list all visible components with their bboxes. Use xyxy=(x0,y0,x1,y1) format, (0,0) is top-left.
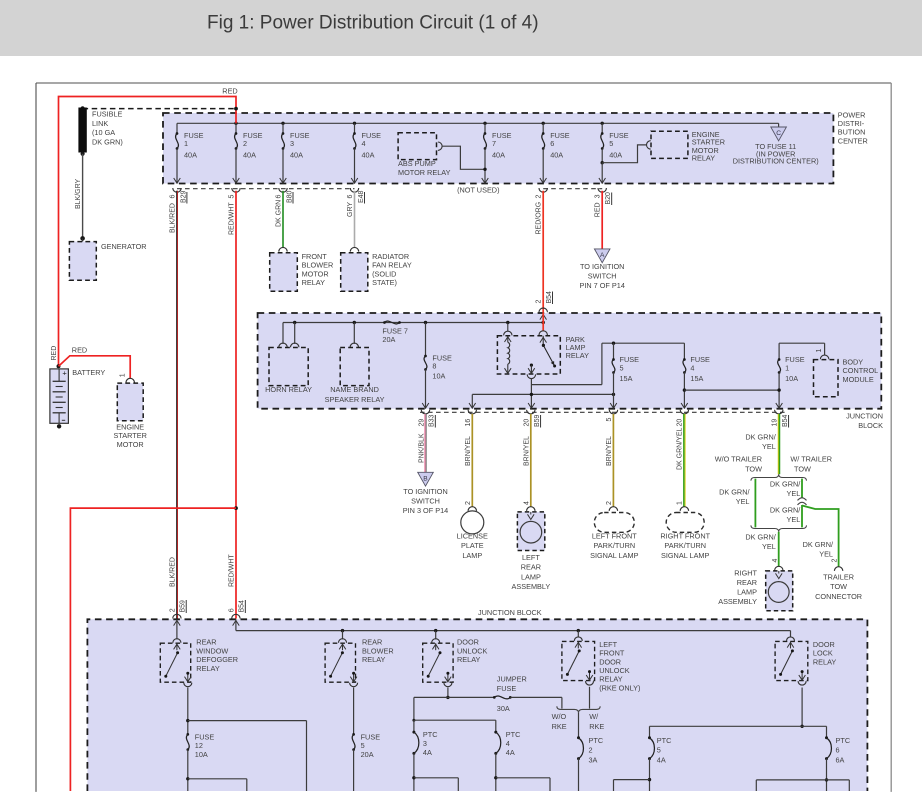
labels RED 3 B20 xyxy=(595,192,612,217)
middle JB exit connector arcs xyxy=(421,410,783,414)
svg-text:B: B xyxy=(423,475,428,482)
svg-text:GENERATOR: GENERATOR xyxy=(101,242,147,251)
labels RED/WHT 6 B54 (lower) xyxy=(229,554,246,613)
label DK GRN/YEL (right branch lower) xyxy=(770,506,801,525)
svg-text:REAR: REAR xyxy=(362,638,382,647)
svg-text:20A: 20A xyxy=(361,750,374,759)
svg-text:STARTER: STARTER xyxy=(114,431,147,440)
svg-text:CONTROL: CONTROL xyxy=(843,366,879,375)
wire W/ trailer branch lower xyxy=(801,505,803,527)
svg-text:PNK/BLK: PNK/BLK xyxy=(418,433,425,463)
svg-text:C: C xyxy=(776,130,781,137)
svg-text:1: 1 xyxy=(677,501,684,505)
brace trailer split top xyxy=(751,474,807,480)
svg-text:FUSE: FUSE xyxy=(195,732,215,741)
svg-text:ASSEMBLY: ASSEMBLY xyxy=(512,582,551,591)
svg-text:8: 8 xyxy=(432,362,436,371)
svg-text:10A: 10A xyxy=(785,374,798,383)
svg-text:30A: 30A xyxy=(497,704,510,713)
svg-text:LEFT: LEFT xyxy=(599,640,617,649)
svg-text:LEFT FRONT: LEFT FRONT xyxy=(592,532,637,541)
svg-text:STATE): STATE) xyxy=(372,278,397,287)
svg-text:B20: B20 xyxy=(605,192,612,205)
wire door lock relay output xyxy=(650,688,827,738)
svg-text:10A: 10A xyxy=(432,372,445,381)
svg-text:SWITCH: SWITCH xyxy=(411,496,440,505)
fuse FUSE 5 15A xyxy=(610,343,639,408)
fuse FUSE 2 40A xyxy=(233,123,263,183)
svg-text:DK GRN/: DK GRN/ xyxy=(745,533,776,542)
fuse FUSE 1 40A xyxy=(174,123,204,183)
wire RED fuse5 to ignition switch triangle xyxy=(601,191,603,249)
svg-text:POWER: POWER xyxy=(838,110,866,119)
svg-text:15A: 15A xyxy=(620,374,633,383)
svg-text:20: 20 xyxy=(524,419,531,427)
fuse FUSE 8 10A xyxy=(422,323,452,409)
svg-text:PARK/TURN: PARK/TURN xyxy=(593,541,635,550)
wire to trailer tow connector xyxy=(802,506,839,567)
off-page triangle B to ignition switch xyxy=(403,472,448,515)
wire defogger output / fuse 12 column xyxy=(186,688,306,792)
svg-text:2: 2 xyxy=(243,139,247,148)
svg-text:4: 4 xyxy=(772,559,779,563)
wire BLK/GRY fusible link to generator xyxy=(82,154,84,239)
svg-text:TRAILER: TRAILER xyxy=(823,573,854,582)
svg-text:FRONT: FRONT xyxy=(599,649,625,658)
wire W/O trailer branch xyxy=(754,479,756,528)
svg-text:BODY: BODY xyxy=(843,358,864,367)
svg-text:TO IGNITION: TO IGNITION xyxy=(403,487,447,496)
svg-text:2: 2 xyxy=(589,746,593,755)
svg-text:MOTOR RELAY: MOTOR RELAY xyxy=(398,168,451,177)
svg-text:6: 6 xyxy=(276,195,283,199)
svg-text:BLK/GRY: BLK/GRY xyxy=(75,178,82,209)
brace W/O RKE / W RKE merge xyxy=(557,706,600,712)
label JUNCTION BLOCK (middle) xyxy=(846,412,883,431)
horn relay xyxy=(265,323,312,395)
label DK GRN/YEL (to trailer connector) xyxy=(803,540,834,559)
svg-text:PTC: PTC xyxy=(836,736,851,745)
svg-text:RKE: RKE xyxy=(552,722,567,731)
svg-text:DK GRN/: DK GRN/ xyxy=(719,488,750,497)
svg-text:40A: 40A xyxy=(492,150,505,159)
svg-text:BATTERY: BATTERY xyxy=(72,368,105,377)
wire GRY fuse4 to radiator fan relay xyxy=(354,191,356,248)
wire door unlock output branch xyxy=(412,688,495,733)
PTC 3 4A xyxy=(412,720,458,791)
svg-text:UNLOCK: UNLOCK xyxy=(457,646,488,655)
trailer tow connector xyxy=(815,567,862,601)
svg-text:BRN/YEL: BRN/YEL xyxy=(606,436,613,466)
svg-text:FUSE: FUSE xyxy=(497,684,517,693)
svg-text:16: 16 xyxy=(465,419,472,427)
wire PNK/BLK fuse8 to ignition switch triangle xyxy=(425,414,426,472)
svg-text:LOCK: LOCK xyxy=(813,649,833,658)
junction dot RED/WHT branch xyxy=(234,506,238,510)
svg-text:LICENSE: LICENSE xyxy=(457,532,488,541)
svg-text:(RKE ONLY): (RKE ONLY) xyxy=(599,683,640,692)
svg-text:W/O: W/O xyxy=(552,712,567,721)
svg-text:2: 2 xyxy=(169,608,176,612)
middle JB bottom connector dashes xyxy=(420,411,787,413)
svg-text:B29: B29 xyxy=(180,190,187,203)
svg-text:RED/WHT: RED/WHT xyxy=(229,202,236,235)
fuse FUSE 3 40A xyxy=(280,123,310,183)
svg-text:RELAY: RELAY xyxy=(566,351,590,360)
svg-text:40A: 40A xyxy=(550,150,563,159)
wire rear blower output / fuse 5 column xyxy=(353,688,355,735)
wire fuse4-fuse1 tie xyxy=(684,389,779,391)
svg-text:3: 3 xyxy=(595,194,602,198)
wire park lamp relay output to exits xyxy=(469,343,615,408)
svg-text:RELAY: RELAY xyxy=(196,664,220,673)
fuse FUSE 1 10A xyxy=(776,343,805,408)
rear blower relay xyxy=(325,639,358,687)
svg-text:2: 2 xyxy=(831,559,838,563)
svg-text:RELAY: RELAY xyxy=(813,657,837,666)
PTC 2 3A xyxy=(577,713,603,791)
PTC 6 6A xyxy=(756,736,850,791)
svg-text:DK GRN/: DK GRN/ xyxy=(803,540,834,549)
engine starter motor relay (PDC) xyxy=(647,130,726,162)
labels DK GRN/YEL 19 B54 xyxy=(772,414,789,427)
PTC 4 4A xyxy=(494,730,550,791)
svg-text:MODULE: MODULE xyxy=(843,375,874,384)
wire DK GRN/YEL 19 main to trailer split xyxy=(778,414,779,474)
svg-text:1: 1 xyxy=(184,139,188,148)
PDC exit connector arcs xyxy=(173,188,607,192)
svg-text:DISTRIBUTION CENTER): DISTRIBUTION CENTER) xyxy=(733,157,819,166)
svg-text:40A: 40A xyxy=(243,150,256,159)
fuse FUSE 12 10A xyxy=(186,732,247,791)
svg-text:RELAY: RELAY xyxy=(692,153,716,162)
wire to right rear lamp assembly xyxy=(778,532,780,567)
svg-text:1: 1 xyxy=(785,363,789,372)
diagram outer frame (clipped at bottom) xyxy=(36,82,891,84)
svg-text:RED: RED xyxy=(51,346,58,361)
rear window defogger relay xyxy=(160,639,192,687)
wire: ABS relay output to fuse 7 column (not used) xyxy=(442,146,487,171)
svg-text:4A: 4A xyxy=(506,748,515,757)
svg-text:6: 6 xyxy=(347,195,354,199)
junction block top entry arrow / connector (RED/ORG) xyxy=(539,308,547,320)
svg-text:40A: 40A xyxy=(290,150,303,159)
junction block (middle) box xyxy=(258,313,882,409)
right front park/turn signal lamp xyxy=(660,507,710,560)
svg-text:MOTOR: MOTOR xyxy=(117,440,144,449)
svg-text:DK GRN/: DK GRN/ xyxy=(745,433,776,442)
labels GRY 6 E48 xyxy=(347,190,365,217)
right rear lamp assembly xyxy=(718,566,792,611)
svg-text:DK GRN/: DK GRN/ xyxy=(770,506,801,515)
label DK GRN/YEL (left branch) xyxy=(719,488,750,507)
svg-text:RIGHT: RIGHT xyxy=(734,569,757,578)
svg-text:YEL: YEL xyxy=(762,542,776,551)
relay terminal drops from bus xyxy=(343,631,791,640)
svg-text:20: 20 xyxy=(677,419,684,427)
svg-text:NAME BRAND: NAME BRAND xyxy=(330,385,379,394)
junction block (bottom) box, clipped at image bottom xyxy=(87,619,867,791)
svg-text:BRN/YEL: BRN/YEL xyxy=(465,436,472,466)
svg-text:LAMP: LAMP xyxy=(521,572,541,581)
svg-text:SIGNAL LAMP: SIGNAL LAMP xyxy=(661,551,710,560)
svg-text:YEL: YEL xyxy=(787,489,801,498)
door unlock relay xyxy=(423,639,453,687)
label DK GRN/YEL (above split) xyxy=(745,433,776,452)
svg-text:SWITCH: SWITCH xyxy=(588,272,617,281)
svg-text:LEFT: LEFT xyxy=(522,553,540,562)
fuse FUSE 7 20A (junction block) xyxy=(382,321,408,344)
svg-text:Fig 1: Power Distribution Circ: Fig 1: Power Distribution Circuit (1 of … xyxy=(207,13,539,34)
labels DK GRN/YEL 20 / 1 xyxy=(677,419,684,505)
svg-text:DISTRI-: DISTRI- xyxy=(838,119,865,128)
bottom JB entry arrows/connectors xyxy=(173,614,240,625)
svg-text:PLATE: PLATE xyxy=(461,541,484,550)
off-page triangle A to ignition switch xyxy=(579,249,624,290)
svg-text:5: 5 xyxy=(606,418,613,422)
svg-text:DK GRN): DK GRN) xyxy=(92,138,123,147)
svg-text:5: 5 xyxy=(620,363,624,372)
junction dot battery positive xyxy=(57,364,61,368)
svg-text:5: 5 xyxy=(609,139,613,148)
svg-text:DOOR: DOOR xyxy=(599,657,621,666)
svg-text:W/O TRAILER: W/O TRAILER xyxy=(715,455,762,464)
svg-text:20A: 20A xyxy=(382,335,395,344)
svg-text:12: 12 xyxy=(195,741,203,750)
wire DK GRN fuse3 to front blower motor relay xyxy=(282,191,284,248)
labels PNK/BLK 29 B33 xyxy=(418,414,435,463)
svg-text:2: 2 xyxy=(465,501,472,505)
svg-text:RED: RED xyxy=(595,202,602,217)
svg-text:LINK: LINK xyxy=(92,119,108,128)
fuse FUSE 5 40A (PDC) xyxy=(599,123,629,183)
svg-text:40A: 40A xyxy=(609,150,622,159)
wire: fuse 5 output to engine starter motor relay xyxy=(602,145,646,163)
wire: main RED feed from battery to PDC xyxy=(59,97,237,367)
svg-text:TOW: TOW xyxy=(830,582,847,591)
svg-text:WINDOW: WINDOW xyxy=(196,646,228,655)
svg-text:B80: B80 xyxy=(286,190,293,203)
label DK GRN/YEL (to right rear lamp) xyxy=(745,533,776,552)
svg-text:RED: RED xyxy=(222,86,237,95)
left front park/turn signal lamp xyxy=(590,507,639,560)
svg-text:YEL: YEL xyxy=(787,515,801,524)
svg-text:PTC: PTC xyxy=(657,736,672,745)
svg-text:19: 19 xyxy=(772,419,779,427)
svg-text:(NOT USED): (NOT USED) xyxy=(457,186,499,195)
svg-text:DOOR: DOOR xyxy=(457,638,479,647)
svg-text:RED/ORG: RED/ORG xyxy=(536,202,543,235)
left rear lamp assembly xyxy=(512,507,551,591)
wire BLK/RED entry to defogger relay xyxy=(176,619,178,639)
svg-text:BLOWER: BLOWER xyxy=(302,261,334,270)
svg-text:PIN 7 OF P14: PIN 7 OF P14 xyxy=(579,281,624,290)
svg-text:RED: RED xyxy=(72,345,87,354)
labels RED/WHT 5 xyxy=(229,195,236,236)
svg-text:YEL: YEL xyxy=(819,550,833,559)
fusible link (10 GA DK GRN) xyxy=(78,106,236,156)
svg-text:+: + xyxy=(62,368,67,377)
svg-text:SIGNAL LAMP: SIGNAL LAMP xyxy=(590,551,639,560)
header bar xyxy=(0,0,922,56)
svg-text:RED/WHT: RED/WHT xyxy=(229,554,236,587)
svg-text:B33: B33 xyxy=(429,414,436,427)
middle JB bus wire xyxy=(283,322,543,324)
svg-text:(SOLID: (SOLID xyxy=(372,269,396,278)
svg-text:REAR: REAR xyxy=(196,638,216,647)
svg-text:RADIATOR: RADIATOR xyxy=(372,252,409,261)
fuse FUSE 7 40A xyxy=(482,123,512,183)
svg-text:(10 GA: (10 GA xyxy=(92,128,115,137)
svg-text:PARK/TURN: PARK/TURN xyxy=(664,541,706,550)
svg-text:4: 4 xyxy=(524,501,531,505)
svg-text:W/: W/ xyxy=(589,712,599,721)
fuse FUSE 4 15A xyxy=(681,343,710,408)
junction dots on PDC bus xyxy=(234,122,604,125)
labels BRN/YEL 5 / 2 xyxy=(606,418,613,506)
park lamp fuse bus xyxy=(602,342,685,345)
svg-text:FRONT: FRONT xyxy=(302,252,328,261)
fuse FUSE 6 40A xyxy=(540,123,570,183)
ABS pump motor relay xyxy=(398,133,451,177)
labels RED/ORG 2 B54 (at junction block) xyxy=(536,291,553,304)
svg-text:W/ TRAILER: W/ TRAILER xyxy=(790,455,832,464)
svg-text:DK GRN/: DK GRN/ xyxy=(770,480,801,489)
svg-text:6: 6 xyxy=(550,139,554,148)
svg-text:UNLOCK: UNLOCK xyxy=(599,666,630,675)
labels BRN/YEL 16 / 2 xyxy=(465,419,472,505)
junction dot fusible link tap xyxy=(234,107,238,111)
fuse FUSE 4 40A xyxy=(351,123,381,183)
svg-text:4: 4 xyxy=(690,363,694,372)
svg-text:1: 1 xyxy=(816,349,823,353)
svg-text:TOW: TOW xyxy=(794,465,811,474)
middle JB bus dots xyxy=(293,321,545,324)
svg-text:PTC: PTC xyxy=(423,730,438,739)
wire BRN/YEL 5 to left front park/turn lamp xyxy=(612,414,614,507)
svg-text:5: 5 xyxy=(361,741,365,750)
jumper fuse 30A xyxy=(448,674,562,713)
svg-text:FUSE: FUSE xyxy=(361,732,381,741)
svg-text:FUSIBLE: FUSIBLE xyxy=(92,109,123,118)
svg-text:PTC: PTC xyxy=(506,730,521,739)
svg-text:DOOR: DOOR xyxy=(813,640,835,649)
svg-text:4: 4 xyxy=(506,739,510,748)
svg-text:B54: B54 xyxy=(239,600,246,613)
svg-text:4: 4 xyxy=(362,139,366,148)
front blower motor relay xyxy=(270,247,334,291)
svg-text:6: 6 xyxy=(229,608,236,612)
svg-text:HORN RELAY: HORN RELAY xyxy=(265,385,312,394)
svg-text:B59: B59 xyxy=(180,600,187,613)
svg-text:YEL: YEL xyxy=(762,442,776,451)
name brand speaker relay xyxy=(325,323,385,404)
svg-text:RIGHT FRONT: RIGHT FRONT xyxy=(660,532,710,541)
svg-text:JUNCTION BLOCK: JUNCTION BLOCK xyxy=(478,608,542,617)
svg-text:6A: 6A xyxy=(836,755,845,764)
svg-text:40A: 40A xyxy=(184,150,197,159)
bottom JB bus wire xyxy=(236,619,791,632)
svg-text:B54: B54 xyxy=(546,291,553,304)
labels DK GRN 6 B80 xyxy=(276,190,294,227)
svg-text:RELAY: RELAY xyxy=(457,655,481,664)
svg-text:3: 3 xyxy=(423,739,427,748)
left front door unlock relay (RKE only) xyxy=(562,637,595,685)
labels REAR BLOWER RELAY xyxy=(362,638,394,664)
svg-text:DK GRN/YEL: DK GRN/YEL xyxy=(677,427,684,470)
svg-text:BLK/RED: BLK/RED xyxy=(169,203,176,233)
svg-text:YEL: YEL xyxy=(736,497,750,506)
labels DOOR UNLOCK RELAY xyxy=(457,638,488,664)
svg-text:PIN 3 OF P14: PIN 3 OF P14 xyxy=(403,506,448,515)
wire BRN/YEL 20 to left rear lamp assembly xyxy=(530,414,532,507)
wire left front door unlock relay output xyxy=(589,687,591,709)
generator xyxy=(69,236,146,280)
inline connector on trailer branch xyxy=(798,498,807,505)
svg-text:TOW: TOW xyxy=(745,465,762,474)
svg-text:40A: 40A xyxy=(362,150,375,159)
svg-text:LAMP: LAMP xyxy=(737,588,757,597)
svg-text:7: 7 xyxy=(492,139,496,148)
svg-text:BLOCK: BLOCK xyxy=(858,421,883,430)
wire BLK/RED fuse1 to junction block xyxy=(176,191,179,619)
labels LEFT FRONT DOOR UNLOCK RELAY (RKE ONLY) xyxy=(599,640,640,693)
radiator fan relay (solid state) xyxy=(341,247,412,291)
svg-text:RKE: RKE xyxy=(589,722,604,731)
wire RED branch to left riser xyxy=(70,508,236,791)
svg-text:3: 3 xyxy=(290,139,294,148)
PDC main bus wire xyxy=(177,122,779,124)
svg-text:BRN/YEL: BRN/YEL xyxy=(524,436,531,466)
svg-text:A: A xyxy=(600,252,605,259)
svg-text:ENGINE: ENGINE xyxy=(116,423,144,432)
svg-text:JUMPER: JUMPER xyxy=(497,674,527,683)
wire RED battery to engine starter motor xyxy=(59,356,131,379)
labels BLK/RED 6 B29 xyxy=(169,190,187,233)
labels W/O RKE and W/ RKE xyxy=(552,712,605,731)
pin labels 4 and 2 xyxy=(772,559,839,563)
labels RED/ORG 2 xyxy=(536,195,543,235)
PTC 5 4A xyxy=(614,736,672,791)
wire BRN/YEL 16 to license plate lamp xyxy=(471,414,473,507)
svg-text:6: 6 xyxy=(169,195,176,199)
park lamp relay xyxy=(497,312,589,378)
svg-text:PTC: PTC xyxy=(589,736,604,745)
svg-text:MOTOR: MOTOR xyxy=(302,269,329,278)
svg-text:ASSEMBLY: ASSEMBLY xyxy=(718,597,757,606)
svg-text:2: 2 xyxy=(536,195,543,199)
svg-text:4A: 4A xyxy=(657,755,666,764)
svg-text:B59: B59 xyxy=(534,414,541,427)
svg-text:FAN RELAY: FAN RELAY xyxy=(372,261,412,270)
battery xyxy=(50,368,69,428)
wire W/ trailer branch upper xyxy=(801,479,803,498)
door lock relay xyxy=(775,637,808,685)
svg-text:RELAY: RELAY xyxy=(599,675,623,684)
svg-text:BLOWER: BLOWER xyxy=(362,646,394,655)
svg-text:10A: 10A xyxy=(195,750,208,759)
PDC bottom connector dashes xyxy=(177,188,355,190)
svg-text:REAR: REAR xyxy=(521,563,541,572)
svg-text:DK GRN: DK GRN xyxy=(276,200,283,227)
wire RED/ORG fuse6 to junction block xyxy=(542,191,544,312)
svg-text:5: 5 xyxy=(657,746,661,755)
svg-text:SPEAKER RELAY: SPEAKER RELAY xyxy=(325,395,385,404)
labels BLK/RED 2 B59 (lower) xyxy=(169,557,186,613)
label DK GRN/YEL (right branch upper) xyxy=(770,480,801,499)
engine starter motor xyxy=(114,378,147,449)
labels REAR WINDOW DEFOGGER RELAY xyxy=(196,638,238,673)
